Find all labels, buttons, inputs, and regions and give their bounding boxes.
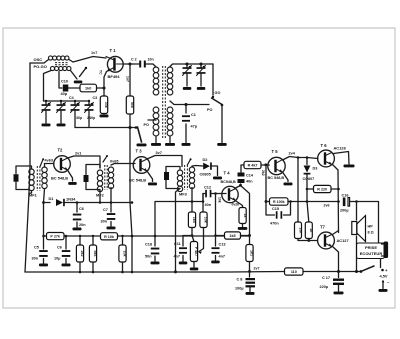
capacitor C14 40n xyxy=(238,173,245,177)
svg-text:C13: C13 xyxy=(219,243,226,247)
loudspeaker HP 8 ohm xyxy=(356,202,358,221)
svg-text:BC 548,B: BC 548,B xyxy=(268,176,285,180)
wire coil tap to C10 xyxy=(59,72,62,89)
wire jack to switch xyxy=(380,259,382,268)
svg-text:C10: C10 xyxy=(61,80,68,84)
wire osc lower coil right lead to ground xyxy=(71,71,78,80)
resistor T7 base (upper) xyxy=(297,158,299,223)
svg-text:56k: 56k xyxy=(130,102,134,108)
svg-text:BC 548,B: BC 548,B xyxy=(51,176,68,181)
capacitor C17 220u xyxy=(338,272,340,278)
resistor T7 base (lower) xyxy=(305,222,312,239)
capacitor C13 4n7 xyxy=(214,234,217,237)
wire MF2 secondary bottom down xyxy=(110,188,112,203)
svg-text:D1: D1 xyxy=(49,196,55,201)
svg-text:110: 110 xyxy=(291,270,297,274)
wire resistor to T1 emitter node xyxy=(97,87,105,89)
wire T6 collector to ground xyxy=(334,152,350,165)
svg-text:CO807: CO807 xyxy=(303,177,315,181)
svg-text:R 100k: R 100k xyxy=(273,200,285,204)
IF transformer MF1 xyxy=(29,169,34,174)
svg-text:PO: PO xyxy=(144,123,150,127)
wire T4 base node down xyxy=(215,194,217,236)
wire T1 emitter down xyxy=(104,72,107,97)
svg-text:PO-GO: PO-GO xyxy=(34,64,47,69)
capacitor C8 100u decoupling xyxy=(249,272,251,278)
resistor P 27k xyxy=(47,233,65,240)
svg-text:1k: 1k xyxy=(243,214,247,218)
svg-text:C14: C14 xyxy=(246,174,254,178)
svg-text:D2: D2 xyxy=(203,157,209,162)
svg-text:40p: 40p xyxy=(61,92,68,96)
wiper arrow into pot xyxy=(199,228,204,252)
svg-text:AC128: AC128 xyxy=(334,146,347,151)
main vertical line from tuning section to bus xyxy=(130,128,132,273)
svg-text:30p: 30p xyxy=(76,116,83,120)
svg-text:10k: 10k xyxy=(123,251,127,257)
svg-text:C6: C6 xyxy=(79,207,84,211)
svg-text:40n: 40n xyxy=(205,203,212,207)
wire AGC line to MF2 xyxy=(77,202,132,204)
resistor R 4k7 xyxy=(244,161,261,168)
svg-text:C11: C11 xyxy=(174,242,181,246)
svg-text:2k2: 2k2 xyxy=(261,170,265,176)
svg-text:R 4k7: R 4k7 xyxy=(248,164,258,168)
svg-text:20n: 20n xyxy=(79,223,86,227)
variable capacitor CV2 xyxy=(60,101,62,105)
wave change switch GO/PO xyxy=(212,64,214,95)
transformer left bottom to ground xyxy=(155,137,157,143)
tuning arrow MF2 xyxy=(103,156,107,162)
svg-text:P 27k: P 27k xyxy=(50,235,61,239)
voltage label 4v63 with arrow xyxy=(40,160,43,167)
capacitor C5 30n xyxy=(42,235,45,238)
wire T2 collector to MF2 (2v1) xyxy=(68,156,101,168)
wire MF3 secondary top to D2 xyxy=(192,165,203,168)
svg-text:HP: HP xyxy=(368,225,374,229)
resistor 10k T4 emitter chain xyxy=(202,194,204,213)
capacitor C18 50n on rail xyxy=(154,235,157,238)
switch arm on oscillator coil (PO/GO) xyxy=(80,69,86,77)
wire D2 output to ground xyxy=(212,166,218,176)
svg-text:2v1: 2v1 xyxy=(75,152,81,156)
svg-text:C15: C15 xyxy=(272,207,279,211)
svg-text:4v63: 4v63 xyxy=(45,159,53,163)
resistor 2k2 to bus xyxy=(79,235,81,237)
svg-text:AC127: AC127 xyxy=(337,238,349,243)
svg-text:C18: C18 xyxy=(145,243,152,247)
svg-text:33k: 33k xyxy=(104,102,108,108)
svg-text:30n: 30n xyxy=(101,220,108,224)
wire T5 emitter ground xyxy=(283,172,289,182)
wire MF2 secondary to T3 base xyxy=(111,164,135,166)
svg-text:MF3: MF3 xyxy=(179,192,188,197)
svg-text:100µ: 100µ xyxy=(235,287,244,291)
wire C14 top to R4k7 xyxy=(241,165,244,173)
svg-text:BF494: BF494 xyxy=(108,74,121,79)
wire transformer secondary tap line PO xyxy=(170,101,209,105)
capacitor across MF1 primary xyxy=(16,166,30,174)
svg-text:2v4: 2v4 xyxy=(289,152,296,156)
svg-text:BC 548,B: BC 548,B xyxy=(129,178,146,183)
diode D3 bias xyxy=(306,158,308,165)
svg-text:10k: 10k xyxy=(218,197,222,203)
svg-text:C6: C6 xyxy=(57,246,62,250)
svg-text:C 8: C 8 xyxy=(237,278,243,282)
svg-text:2v6: 2v6 xyxy=(324,204,330,208)
svg-text:C 2: C 2 xyxy=(131,58,137,62)
IF transformer MF3 xyxy=(177,170,182,175)
node speaker on bus xyxy=(355,270,358,273)
svg-text:4n7: 4n7 xyxy=(174,255,181,259)
svg-text:1N34: 1N34 xyxy=(66,197,76,202)
svg-text:5k6: 5k6 xyxy=(93,251,97,257)
svg-text:2v7: 2v7 xyxy=(254,267,260,271)
wire transformer right top to rail xyxy=(170,64,213,67)
resistor 1k1 to bus xyxy=(249,236,251,245)
svg-text:TC: TC xyxy=(99,70,103,75)
wire T4 emitter to resistor (0v26) xyxy=(235,200,243,208)
tuning arrow MF3 xyxy=(187,160,190,165)
svg-text:C1: C1 xyxy=(191,113,196,117)
wire T2 emitter to ground xyxy=(68,170,73,181)
wire T7 emitter to bus xyxy=(333,247,339,272)
svg-text:1k5: 1k5 xyxy=(229,234,235,238)
wire midpoint down to T7 base resistor xyxy=(307,202,309,223)
svg-text:0v26: 0v26 xyxy=(232,203,240,207)
svg-text:C0805: C0805 xyxy=(200,173,211,177)
tuning gang rail xyxy=(44,100,90,102)
ground T4 emitter resistor xyxy=(242,224,244,227)
wire T1 collector to node xyxy=(123,63,130,65)
wire T4 collector load down xyxy=(241,186,250,236)
svg-text:4n7: 4n7 xyxy=(219,255,226,259)
wire R4k7 to T5 base xyxy=(261,164,269,166)
wire trimmer bottoms to ground switch xyxy=(88,121,90,128)
svg-text:T 6: T 6 xyxy=(321,143,328,148)
transformer right bottom to ground xyxy=(169,137,171,143)
svg-text:C 17: C 17 xyxy=(322,276,330,280)
resistor 1k5 (volume top) xyxy=(191,202,193,213)
svg-text:T7: T7 xyxy=(320,225,326,230)
svg-text:3v7: 3v7 xyxy=(156,151,162,155)
svg-text:220µ: 220µ xyxy=(320,285,329,289)
svg-text:GO: GO xyxy=(215,91,221,95)
svg-text:C12: C12 xyxy=(204,186,211,190)
ground below emitter resistor xyxy=(103,113,105,116)
svg-text:2k2: 2k2 xyxy=(80,251,84,257)
variable capacitor CV4 xyxy=(199,62,202,65)
svg-text:T 4: T 4 xyxy=(224,171,231,176)
PO tap on transformer xyxy=(148,119,156,121)
wire C2 node down (1n7) xyxy=(129,64,131,96)
on/off switch on bus xyxy=(360,270,363,273)
svg-text:4,5V: 4,5V xyxy=(380,274,388,279)
wire T5 base feedback line down xyxy=(265,165,267,202)
wire T7 collector up xyxy=(333,231,339,235)
svg-text:C16: C16 xyxy=(342,194,349,198)
svg-text:ECOUTEUR: ECOUTEUR xyxy=(360,251,383,256)
IF transformer MF2 xyxy=(97,170,102,175)
wire to earphone jack xyxy=(357,202,379,243)
svg-text:C7: C7 xyxy=(103,208,108,212)
svg-text:15k: 15k xyxy=(298,227,302,233)
svg-text:1k0: 1k0 xyxy=(85,87,91,91)
wire osc coil top-right to T1 base xyxy=(69,57,106,63)
svg-text:40n: 40n xyxy=(246,180,253,184)
resistor (series, oscillator) xyxy=(80,84,97,92)
svg-text:1k: 1k xyxy=(309,228,313,232)
wire MF1 primary top to rail xyxy=(30,166,32,169)
resistor 1k5 horizontal xyxy=(216,235,225,237)
ground of oscillator coil xyxy=(74,81,83,84)
ground of C1 xyxy=(182,143,191,146)
svg-text:50n: 50n xyxy=(145,255,152,259)
svg-text:PO: PO xyxy=(207,108,213,112)
variable capacitor CV1 xyxy=(45,101,47,105)
node T7 emitter on bus xyxy=(337,270,340,273)
svg-text:10k: 10k xyxy=(204,217,208,223)
ground switch arm S1 xyxy=(138,127,142,142)
wire MF2 primary bottom down xyxy=(99,190,101,203)
wire MF1 primary bottom xyxy=(29,191,32,194)
resistor 5k6 to bus xyxy=(92,235,94,237)
svg-text:10µ: 10µ xyxy=(54,257,60,261)
capacitor C6b 10u xyxy=(65,235,68,238)
svg-text:240p: 240p xyxy=(87,116,96,120)
wire detector line y201 xyxy=(155,202,203,237)
resistor R 100k feedback xyxy=(265,200,268,203)
capacitor across MF2 primary xyxy=(86,165,100,175)
svg-text:D3: D3 xyxy=(313,167,318,171)
wire osc lower coil left lead down xyxy=(44,71,52,102)
svg-text:30n: 30n xyxy=(32,257,39,261)
diode D1 AGC xyxy=(42,201,45,204)
capacitor across MF3 primary xyxy=(166,167,180,173)
svg-text:OSC: OSC xyxy=(34,57,43,62)
svg-text:C4: C4 xyxy=(69,96,74,100)
earphone jack PRISE ECOUTEUR xyxy=(357,243,385,259)
resistor 33k T1 emitter xyxy=(100,96,107,114)
svg-text:1k5: 1k5 xyxy=(192,217,196,223)
capacitor C11 4n7 xyxy=(183,236,192,247)
capacitor C1 47p xyxy=(184,103,187,106)
svg-text:47p: 47p xyxy=(191,125,198,129)
svg-text:8 Ω: 8 Ω xyxy=(368,231,374,235)
wire MF3 primary bottom to bus xyxy=(176,189,181,272)
switch common to ground xyxy=(221,105,223,143)
wire T6 emitter down xyxy=(333,165,339,233)
svg-text:T 3: T 3 xyxy=(136,149,143,154)
svg-text:BC548,B: BC548,B xyxy=(221,180,237,184)
svg-text:C3: C3 xyxy=(93,96,98,100)
svg-text:1k1: 1k1 xyxy=(250,250,254,256)
wire T3 emitter to ground xyxy=(147,171,153,182)
svg-text:T2: T2 xyxy=(58,148,64,153)
resistor T4 emitter xyxy=(239,208,246,224)
wire T3 collector to MF3 (3v7) xyxy=(147,156,182,167)
resistor R 10k on rail xyxy=(101,233,118,240)
svg-text:1n7: 1n7 xyxy=(126,76,130,82)
left supply rail wire xyxy=(25,63,30,272)
svg-text:C5: C5 xyxy=(34,246,39,250)
svg-text:R 220: R 220 xyxy=(317,188,327,192)
svg-text:200µ: 200µ xyxy=(340,209,349,213)
wire MF1 secondary to T2 base xyxy=(45,164,55,168)
output midpoint node xyxy=(306,189,308,202)
wire MF1 secondary bottom down xyxy=(44,189,45,237)
resistor 110 in supply bus xyxy=(285,268,304,275)
node C2 xyxy=(128,62,131,65)
resistor R 220 xyxy=(307,188,314,190)
svg-text:T 1: T 1 xyxy=(110,48,117,53)
oscillator coil OSC PO-GO xyxy=(48,56,52,60)
svg-text:470n: 470n xyxy=(270,222,279,226)
wire osc coil top-left to left rail xyxy=(30,60,49,64)
resistor 56k xyxy=(126,96,133,114)
variable capacitor CV3 xyxy=(185,62,188,65)
svg-text:10n: 10n xyxy=(148,58,154,62)
mixer/oscillator transformer xyxy=(153,67,159,73)
svg-text:R 10k: R 10k xyxy=(104,235,115,239)
svg-text:1v7: 1v7 xyxy=(91,51,97,55)
wire T5 collector to T6 base (2v4) xyxy=(283,157,319,161)
wire MF3 secondary bottom down xyxy=(191,188,193,202)
volume potentiometer P xyxy=(192,236,194,242)
wire speaker bottom to bus xyxy=(356,236,358,272)
supply bus bottom xyxy=(25,271,285,274)
svg-text:P 4k7: P 4k7 xyxy=(194,247,198,256)
resistor 10k to bus xyxy=(121,235,123,237)
mid AGC rail xyxy=(44,235,251,237)
svg-text:PRISE: PRISE xyxy=(365,245,377,250)
wire T4 collector up to C14 xyxy=(235,184,241,189)
svg-text:T 5: T 5 xyxy=(272,149,279,154)
